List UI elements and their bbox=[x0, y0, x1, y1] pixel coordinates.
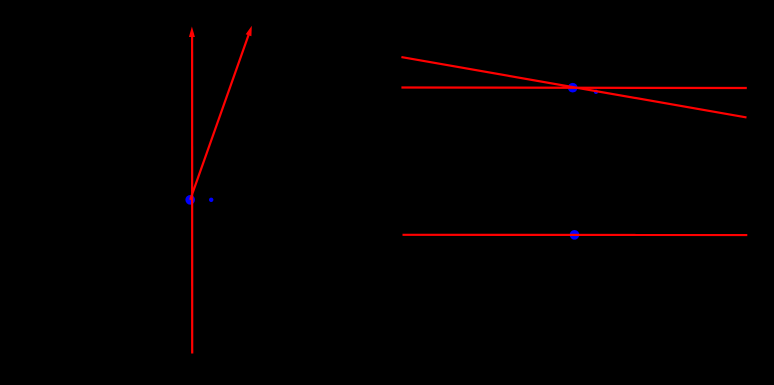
point A (origin of left figure) bbox=[185, 195, 195, 205]
point D (small dot on diagonal line) bbox=[594, 90, 598, 94]
wire (vertical line through A) bbox=[191, 36, 193, 354]
wire (slanted ray from A) bbox=[190, 35, 248, 200]
point E (on bottom-right line) bbox=[570, 230, 580, 240]
point C (intersection point, top-right figure) bbox=[568, 83, 578, 93]
arrowhead of vertical vector bbox=[189, 27, 195, 38]
wire (bottom-right horizontal line) bbox=[403, 234, 748, 236]
wire (diagonal line) bbox=[401, 57, 746, 117]
point B (small dot right of origin) bbox=[209, 198, 213, 202]
wire (top-right horizontal line) bbox=[401, 86, 746, 89]
arrowhead of slanted vector bbox=[246, 26, 252, 37]
